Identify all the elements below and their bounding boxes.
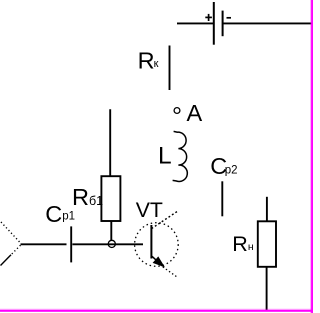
input terminal lower ray solid part <box>1 255 12 266</box>
battery - polarity mark <box>227 17 232 19</box>
resistor Rb1 top lead wire <box>109 109 111 176</box>
wire: capacitor Cp1 to node B to transistor base <box>72 243 143 245</box>
input terminal lower ray dotted part <box>11 245 21 255</box>
resistor Rb1 body <box>101 176 120 221</box>
node A circle <box>174 108 180 114</box>
svg-text:A: A <box>187 100 203 126</box>
node B junction circle on base wire <box>108 240 115 247</box>
transistor VT emitter arrowhead <box>154 257 164 266</box>
resistor Rk lead wire <box>169 46 171 91</box>
transistor VT base bar <box>150 225 152 259</box>
resistor Rn body <box>258 221 276 266</box>
input terminal upper dotted ray <box>1 222 21 244</box>
resistor Rn top lead wire <box>266 197 268 222</box>
battery + polarity mark <box>205 14 212 21</box>
transistor VT emitter wire dotted continuation <box>163 267 178 277</box>
capacitor Cp2 lead wire <box>221 181 223 216</box>
wire: top horizontal from Rk branch to battery + plate <box>177 22 213 24</box>
battery GB positive plate (long) <box>213 2 215 45</box>
svg-text:VT: VT <box>136 198 163 222</box>
inductor L coil <box>173 131 188 181</box>
resistor Rb1 bottom lead wire <box>110 221 112 241</box>
transistor VT emitter wire solid stub <box>152 256 163 266</box>
canvas border bottom (magenta) <box>0 309 313 312</box>
resistor Rn bottom lead wire <box>266 267 268 310</box>
svg-text:L: L <box>158 142 172 169</box>
capacitor Cp1 plate <box>70 226 72 262</box>
wire: input terminal to capacitor Cp1 <box>21 243 67 245</box>
battery GB negative plate (short) <box>222 11 224 37</box>
canvas border right (magenta) <box>310 0 313 313</box>
transistor VT body circle (dotted) <box>135 223 179 267</box>
wire: battery - plate to right border <box>223 22 312 24</box>
transistor VT collector wire (dashed) <box>152 211 179 229</box>
